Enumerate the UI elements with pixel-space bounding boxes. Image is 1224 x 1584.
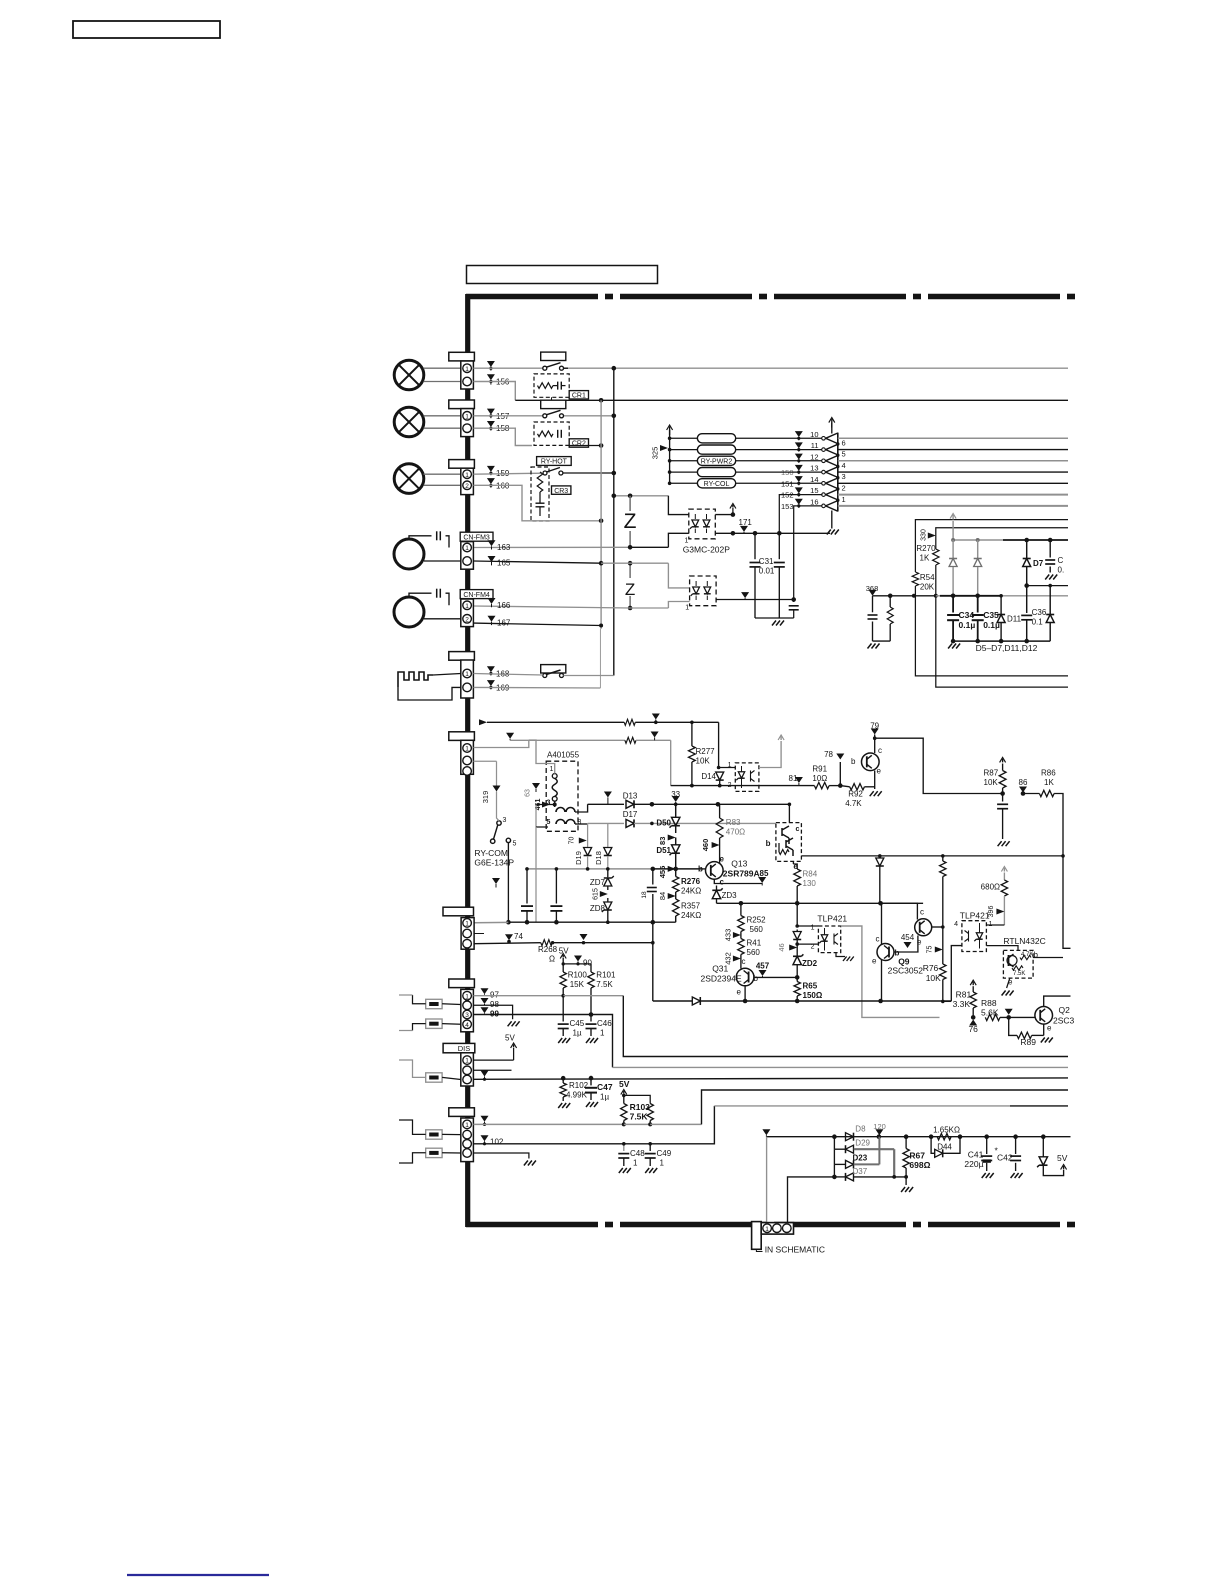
svg-text:163: 163 — [497, 543, 511, 552]
wire pin1 up-step — [473, 740, 528, 748]
svg-text:698Ω: 698Ω — [909, 1160, 930, 1170]
resistor R81 — [972, 982, 974, 986]
svg-text:CR1: CR1 — [572, 393, 586, 400]
svg-text:TLP421: TLP421 — [960, 911, 990, 921]
connector CN-LA2 — [461, 409, 474, 437]
svg-text:D51: D51 — [656, 846, 671, 855]
svg-text:0.01: 0.01 — [759, 567, 775, 576]
svg-text:98: 98 — [490, 1000, 499, 1009]
svg-text:150Ω: 150Ω — [803, 991, 823, 1000]
column x797 diode — [796, 903, 798, 926]
flag 81 — [795, 777, 803, 783]
svg-text:e: e — [1047, 1024, 1052, 1033]
flag 159 — [487, 466, 495, 472]
label CN-FM3 — [460, 532, 493, 541]
capacitor C48 — [623, 1144, 625, 1151]
svg-text:319: 319 — [481, 791, 490, 804]
power rail y1136 — [766, 1136, 1070, 1138]
step into G3MC2 bottom — [668, 602, 689, 609]
wire motor FM4 to pin2 — [424, 618, 461, 620]
connector CN-4pin2 tab — [449, 1108, 475, 1117]
svg-text:c: c — [742, 957, 746, 966]
page header box (empty) — [73, 21, 220, 38]
zener diode 5V — [1042, 1137, 1044, 1157]
svg-text:RTLN432C: RTLN432C — [1003, 936, 1045, 946]
svg-text:e: e — [737, 988, 742, 997]
resistor R86 — [1039, 790, 1054, 796]
wire down to bottom row y785 — [670, 740, 672, 785]
svg-text:c: c — [876, 935, 880, 944]
wire heater to pin1 — [433, 674, 461, 676]
connector heater — [461, 660, 474, 698]
connector CN-3pin2 tab — [443, 907, 474, 916]
svg-text:4.99K: 4.99K — [566, 1091, 588, 1100]
svg-text:R276: R276 — [681, 877, 701, 886]
svg-text:Q31: Q31 — [712, 964, 728, 974]
diode D11 — [1000, 596, 1002, 614]
svg-text:16: 16 — [810, 497, 818, 506]
wire D29 right thick gray — [854, 1148, 895, 1150]
relay CR2 armature cover — [541, 400, 566, 408]
capacitor C34 — [952, 596, 954, 613]
svg-text:1: 1 — [685, 538, 689, 545]
resistor R87 — [1002, 759, 1004, 763]
wire 74 row — [474, 943, 541, 944]
svg-text:CN-FM4: CN-FM4 — [463, 592, 490, 599]
relay RY-HOT contact switch — [543, 471, 547, 475]
relay CR1 coil (dashed) — [534, 374, 569, 397]
flag 166 — [488, 598, 496, 604]
relay CR2 coil (dashed) — [534, 422, 569, 445]
varistor Z2 — [629, 563, 631, 578]
svg-text:e: e — [877, 767, 882, 776]
capacitor C49 — [649, 1144, 651, 1151]
svg-text:5: 5 — [513, 841, 517, 848]
connector CN-3pin tab — [449, 732, 475, 741]
connector CN-FM3 — [461, 542, 474, 570]
svg-text:D50: D50 — [656, 819, 671, 828]
svg-text:C48: C48 — [630, 1149, 645, 1158]
svg-text:2: 2 — [465, 616, 469, 623]
svg-text:b: b — [754, 974, 759, 983]
flag 160 — [487, 478, 495, 484]
flag below RY-COM — [492, 878, 500, 884]
relay CR2 contact switch — [543, 414, 547, 418]
Q9 emitter down — [881, 960, 883, 1002]
wire TLP421B to RTLN432C — [986, 946, 1018, 951]
wire lamp LA2 to connector — [424, 415, 461, 417]
Q10 emitter to Q9 base — [894, 936, 918, 953]
resistor R89 — [1009, 1017, 1017, 1035]
label IN SCHEMATIC — [756, 1249, 762, 1251]
svg-text:0.: 0. — [1058, 566, 1065, 575]
svg-text:R270: R270 — [916, 544, 936, 553]
resistor R277 — [691, 722, 693, 746]
flag 455 — [668, 866, 676, 872]
svg-text:c: c — [796, 826, 800, 833]
wire TLP421B pin1 — [986, 924, 1004, 926]
capacitor at 368 — [872, 596, 874, 613]
border bottom — [466, 1222, 598, 1228]
diode D8 — [846, 1133, 854, 1141]
svg-text:1: 1 — [465, 921, 469, 928]
connector CN-3pin2 — [461, 918, 474, 950]
wire motor FM4 pin1 row y607 — [473, 606, 630, 608]
wire lamp LA1 to connector — [424, 367, 461, 369]
svg-text:1: 1 — [465, 366, 469, 373]
wire D37 to connector — [788, 1177, 835, 1222]
svg-text:R252: R252 — [747, 916, 767, 925]
svg-text:18: 18 — [641, 891, 648, 899]
connector CN-4pin — [461, 989, 474, 1031]
border left — [465, 294, 470, 1227]
diode D29 — [846, 1145, 854, 1153]
wire pin2 to CR1 coil — [473, 382, 515, 401]
flag inverter input row 6 — [795, 487, 803, 493]
svg-text:R76: R76 — [923, 963, 939, 973]
capacitor under R87 — [997, 803, 1008, 805]
flag 460 — [712, 842, 720, 848]
resistor R357 — [673, 899, 679, 916]
svg-text:171: 171 — [739, 518, 753, 527]
svg-text:2SD2394E: 2SD2394E — [701, 974, 742, 984]
capacitor C42 — [1015, 1137, 1017, 1154]
relay RY-COM contact — [497, 821, 501, 825]
svg-text:D5–D7,D11,D12: D5–D7,D11,D12 — [976, 643, 1038, 653]
flag on row y740 — [651, 732, 659, 738]
svg-text:Q13: Q13 — [731, 859, 747, 869]
TLP421A ground — [836, 953, 845, 957]
capacitor to ground right — [793, 600, 795, 603]
inverter buffer row 6 — [826, 489, 838, 500]
capacitor C31b — [778, 533, 780, 559]
connector DIS — [461, 1053, 474, 1086]
svg-text:167: 167 — [497, 619, 511, 628]
wire 461 node — [536, 804, 555, 806]
svg-text:1µ: 1µ — [573, 1029, 582, 1038]
svg-text:1: 1 — [465, 746, 469, 753]
svg-text:R100: R100 — [568, 971, 588, 980]
svg-text:455: 455 — [658, 866, 667, 879]
resistor on row y722 — [624, 719, 635, 725]
wire lamp LA3 to connector — [424, 473, 461, 475]
svg-text:4: 4 — [842, 461, 846, 470]
resistor R252 — [740, 903, 742, 915]
wire pin2 stub — [474, 933, 484, 935]
diode x879 — [879, 856, 881, 858]
transistor Q2 — [1035, 1007, 1053, 1025]
wire D17 row y823 — [588, 822, 624, 824]
motor FM4 series capacitor — [409, 593, 432, 597]
svg-text:325: 325 — [651, 447, 660, 460]
svg-text:8: 8 — [578, 819, 582, 826]
transistor Q9 — [877, 944, 894, 961]
wire R268 right — [552, 942, 653, 944]
darlington module (dashed) — [776, 823, 802, 862]
svg-text:75: 75 — [927, 946, 934, 954]
wire pin1 row step right — [563, 995, 623, 997]
step into G3MC1 — [668, 496, 688, 515]
svg-text:c: c — [920, 908, 924, 917]
svg-text:D23: D23 — [853, 1154, 868, 1163]
svg-text:10K: 10K — [984, 778, 999, 787]
svg-text:166: 166 — [497, 601, 511, 610]
connector CN-LA1 — [461, 361, 474, 389]
svg-text:C35: C35 — [983, 610, 999, 620]
ground under Q2 emitter — [1041, 1038, 1045, 1043]
svg-text:C46: C46 — [597, 1019, 612, 1028]
flag 70 — [579, 838, 587, 844]
fuse F2 — [426, 1019, 442, 1028]
svg-text:24KΩ: 24KΩ — [681, 911, 701, 920]
wire transformer secondary right — [575, 804, 588, 812]
flag above pin1 — [481, 1116, 489, 1122]
inverter buffer row 2 — [826, 444, 838, 455]
svg-text:D44: D44 — [937, 1143, 952, 1152]
diode D7 — [1026, 540, 1028, 558]
resistor R65 — [796, 977, 798, 981]
flag 325 — [660, 445, 668, 451]
svg-text:1: 1 — [465, 413, 469, 420]
svg-text:R81: R81 — [956, 990, 972, 1000]
flag on row y722 — [652, 714, 660, 720]
svg-text:4: 4 — [465, 1022, 469, 1029]
flag above wire A — [487, 361, 495, 367]
wire CR1 coil to row B — [551, 397, 553, 400]
flag 156 — [487, 374, 495, 380]
flag inverter input row 1 — [795, 431, 803, 437]
fuse F3 — [426, 1073, 442, 1082]
svg-text:1: 1 — [465, 603, 469, 610]
capacitor C37 — [1049, 540, 1051, 558]
wire motor FM3 pin1 row y547 — [473, 546, 630, 548]
relay pill blank — [697, 434, 735, 443]
arrow supply small — [732, 505, 734, 508]
svg-text:79: 79 — [870, 722, 879, 731]
wire 153 feed — [794, 506, 823, 600]
svg-text:Ω: Ω — [549, 955, 555, 964]
wire row y722 (flag left) — [479, 719, 487, 725]
wires pills to inverter inputs — [736, 437, 823, 439]
svg-text:R86: R86 — [1041, 769, 1056, 778]
wire motor FM3 to pin2 — [424, 560, 461, 562]
inverter ground — [831, 511, 833, 529]
door switch — [541, 665, 566, 673]
resistor R102 — [562, 1078, 564, 1083]
wire to Q13 base — [676, 868, 702, 870]
wire down to opto LED anode — [718, 722, 720, 767]
svg-text:A401055: A401055 — [547, 751, 580, 760]
svg-text:R54: R54 — [920, 573, 935, 582]
svg-text:5: 5 — [547, 819, 551, 826]
svg-text:R88: R88 — [981, 998, 997, 1008]
flag 46 — [789, 945, 797, 951]
svg-text:RY-PWR2: RY-PWR2 — [701, 458, 733, 465]
resistor R84 — [792, 861, 794, 864]
flag 63 — [532, 783, 540, 789]
wire pin2 into CR3 — [473, 485, 540, 521]
relay pill RY-PWR2 — [697, 456, 735, 465]
svg-text:2SC3052: 2SC3052 — [888, 966, 924, 976]
diode D17 — [626, 819, 634, 827]
G3MC1 output wires — [715, 514, 733, 516]
vertical bus x601 — [600, 400, 602, 628]
Q10 output wire — [932, 926, 943, 928]
flag inverter input row 3 — [795, 454, 803, 460]
capacitor C31 — [754, 533, 756, 559]
inverter output wires — [838, 437, 1068, 439]
inverter buffer row 1 — [826, 433, 838, 444]
flag 615 — [600, 891, 608, 897]
wire TLP421A input wires — [797, 925, 818, 927]
transformer primary winding — [552, 774, 557, 779]
svg-text:63: 63 — [525, 789, 532, 797]
svg-text:b: b — [766, 839, 771, 848]
wire Z1 top row — [614, 495, 669, 497]
svg-text:e: e — [872, 957, 877, 966]
transformer secondary winding — [556, 808, 575, 813]
svg-text:G3MC-202P: G3MC-202P — [683, 545, 731, 555]
wire CR3 bottom to vertical — [540, 520, 601, 522]
resistor R67 — [905, 1137, 907, 1149]
relay CR3 snubber (dashed) — [531, 467, 549, 521]
wire darlington top to D13 row — [788, 804, 790, 822]
inverter array IC (7 buffers, tip-left) — [837, 433, 839, 512]
inverter supply arrow — [831, 419, 833, 428]
wire pin1 top of transformer — [529, 740, 555, 774]
resistor R41 — [738, 939, 744, 955]
svg-text:C: C — [1058, 556, 1064, 565]
inverter buffer row 3 — [826, 456, 838, 467]
svg-text:3.3K: 3.3K — [953, 999, 971, 1009]
svg-text:14: 14 — [810, 475, 818, 484]
flag 83 — [668, 835, 676, 841]
svg-text:D8: D8 — [855, 1125, 866, 1134]
svg-text:R91: R91 — [812, 765, 827, 774]
wire A row y368 — [473, 367, 542, 369]
flag 432 — [740, 955, 742, 962]
resistor R83 — [719, 804, 721, 818]
svg-text:615: 615 — [593, 888, 600, 900]
svg-text:130: 130 — [803, 879, 817, 888]
svg-text:70: 70 — [569, 837, 576, 845]
label CR2 — [569, 439, 588, 447]
svg-text:D13: D13 — [623, 791, 638, 800]
svg-text:6: 6 — [842, 438, 846, 447]
svg-text:b: b — [851, 757, 856, 766]
motor FM3 series capacitor — [409, 536, 432, 539]
svg-text:74: 74 — [514, 932, 523, 941]
gray row y869 — [527, 868, 653, 870]
svg-text:1: 1 — [465, 545, 469, 552]
svg-text:454: 454 — [901, 933, 915, 942]
flag above D13 row — [604, 792, 612, 798]
wire DIS pin2 stub — [473, 1069, 511, 1071]
svg-text:78: 78 — [824, 750, 833, 759]
connector CN-LA3 — [461, 468, 474, 494]
wire transformer left leg down — [535, 827, 537, 922]
connector heater tab — [449, 652, 475, 661]
svg-text:D7: D7 — [1033, 559, 1044, 568]
svg-text:220µ: 220µ — [964, 1159, 983, 1169]
flag above Q2 base — [1005, 1009, 1013, 1015]
svg-text:1µ: 1µ — [600, 1093, 609, 1102]
svg-text:165: 165 — [497, 559, 511, 568]
diode D14 — [718, 768, 720, 770]
wire rail flag down to connector — [766, 1137, 768, 1222]
wire R103 top link — [624, 1095, 650, 1103]
column D50 D51 at x675 — [675, 804, 677, 817]
label CR3 — [552, 486, 571, 494]
flag inverter input row 7 — [795, 499, 803, 505]
wire pin4 to ground — [473, 1153, 529, 1159]
svg-text:2SR789A: 2SR789A — [723, 869, 760, 879]
vertical bus x614 — [613, 368, 615, 675]
label CN-FM4 — [460, 590, 493, 599]
diode D51 zener — [672, 845, 680, 853]
svg-text:C36: C36 — [1032, 608, 1047, 617]
blue footer rule — [127, 1574, 269, 1576]
svg-text:5: 5 — [842, 450, 846, 459]
wire transformer pin5 left — [535, 805, 537, 828]
connector DIS tab — [443, 1043, 475, 1052]
wire row y785 — [671, 785, 793, 787]
inverter buffer row 4 — [826, 467, 838, 478]
diode D37 — [846, 1173, 854, 1181]
svg-text:4.7K: 4.7K — [1021, 952, 1033, 958]
svg-text:5V: 5V — [505, 1034, 515, 1043]
svg-text:10: 10 — [810, 430, 818, 439]
svg-text:470Ω: 470Ω — [726, 828, 745, 837]
svg-text:7.5K: 7.5K — [596, 980, 613, 989]
wire R91 to junction — [829, 785, 840, 787]
transistor Q10 (upper right) — [881, 903, 918, 919]
node 325 bus — [669, 427, 671, 436]
svg-text:5V: 5V — [1057, 1153, 1068, 1163]
relay pill RY-COL — [697, 479, 735, 488]
svg-text:330: 330 — [921, 529, 928, 541]
wire motor FM3 pin2 row y563 — [473, 561, 601, 563]
wire pin3 row dark — [473, 1014, 591, 1016]
wire q13 base from 455 node — [702, 868, 706, 870]
Q2 emitter — [1043, 1024, 1045, 1035]
svg-text:R84: R84 — [803, 870, 818, 879]
svg-text:102: 102 — [490, 1138, 504, 1147]
diode D44 bypass — [931, 1137, 934, 1154]
svg-text:R277: R277 — [696, 747, 716, 756]
relay CR1 contact switch — [543, 366, 547, 370]
ground bus under caps — [953, 640, 1050, 642]
svg-text:R83: R83 — [726, 818, 741, 827]
flag 74 — [505, 934, 513, 940]
svg-text:R41: R41 — [747, 939, 762, 948]
svg-text:560: 560 — [747, 948, 761, 957]
flag 165 on row — [488, 556, 496, 562]
svg-text:TLP421: TLP421 — [817, 914, 847, 924]
dark row y903 — [717, 902, 924, 904]
zener ZD8 — [604, 902, 612, 910]
svg-text:C45: C45 — [570, 1019, 585, 1028]
label RY-HOT — [537, 457, 572, 466]
wire node 368 row — [873, 595, 936, 597]
svg-text:R65: R65 — [803, 982, 818, 991]
svg-text:1: 1 — [550, 766, 554, 773]
flag 86 — [1019, 787, 1027, 793]
resistor R101 — [588, 972, 594, 988]
flag 79 — [871, 729, 879, 735]
connector CN-LA1 tab — [449, 352, 475, 361]
flag 168 — [487, 666, 495, 672]
